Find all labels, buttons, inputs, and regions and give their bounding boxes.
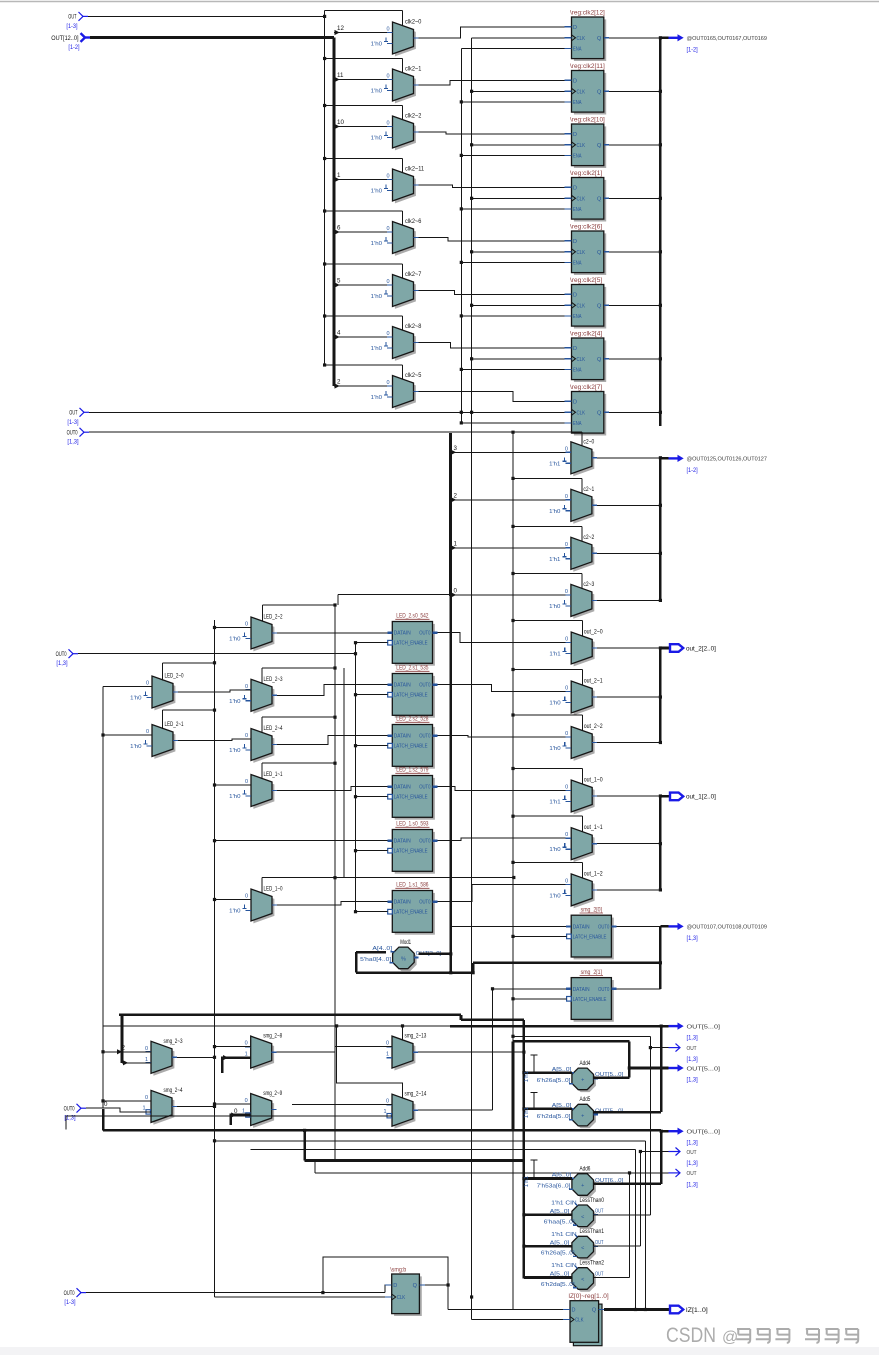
wire data into LED_2~0 <box>103 686 152 688</box>
svg-text:c2~3: c2~3 <box>583 581 594 588</box>
wire LessThan2 OUT riser x629.5 <box>594 1277 630 1279</box>
wire smg_2~9 select hook <box>231 1115 251 1125</box>
wire select tap for clk2~2 <box>325 105 403 107</box>
svg-text:A[4..0]: A[4..0] <box>372 946 392 952</box>
svg-text:OUT: OUT <box>68 14 76 21</box>
svg-text:ENA: ENA <box>573 207 582 213</box>
wire LessThan0 A from trunk <box>524 1214 572 1217</box>
wire select drop smg_2~14 <box>337 1026 403 1099</box>
latch LED_1.s0_593 <box>395 832 435 874</box>
svg-text:\reg:clk2[11]: \reg:clk2[11] <box>570 63 605 70</box>
svg-text:0: 0 <box>565 832 568 838</box>
wire out_2~1 output to bus <box>597 696 660 698</box>
wire select tap for LED_1~0 <box>262 877 335 879</box>
svg-text:OUT0: OUT0 <box>67 430 78 437</box>
mux smg_2~14 <box>394 1097 415 1129</box>
svg-text:Add5: Add5 <box>580 1096 591 1103</box>
svg-text:LED_2~4: LED_2~4 <box>264 725 283 732</box>
svg-text:1'h0: 1'h0 <box>549 847 560 853</box>
svg-text:1'h1: 1'h1 <box>524 1071 530 1082</box>
wire CLK trunk vertical x471.6 <box>471 38 473 1320</box>
bus smg select feed y1015 <box>119 1014 461 1017</box>
svg-text:1'h0: 1'h0 <box>229 699 240 705</box>
mux clk2~11 <box>395 171 416 203</box>
wire vertical trunk x214.5 <box>214 620 216 1297</box>
svg-text:Mod1: Mod1 <box>400 939 411 946</box>
flip-flop \reg:clk2[11] <box>574 73 606 115</box>
flip-flop \reg:clk2[10] <box>574 126 606 168</box>
wire CLK into \reg:clk2[1] <box>472 197 565 199</box>
bus @OUT0107 riser x660.4 <box>659 926 662 988</box>
svg-text:out_1[2..0]: out_1[2..0] <box>686 794 716 801</box>
operator Add5 (+) <box>574 1107 596 1129</box>
wire vertical x344 <box>343 668 345 878</box>
wire LessThan1 A from trunk <box>524 1245 572 1248</box>
flip-flop \reg:clk2[12] <box>574 19 606 61</box>
bus c2 data trunk vertical x450.5 <box>449 433 452 596</box>
svg-text:OUT0: OUT0 <box>419 683 430 689</box>
svg-text:lZ[0]~reg[1..0]: lZ[0]~reg[1..0] <box>569 1293 609 1300</box>
svg-text:1: 1 <box>386 1052 389 1058</box>
bus OUT[12..0] vertical trunk x334 <box>333 38 336 387</box>
svg-text:OUT0: OUT0 <box>64 1106 75 1113</box>
wire select tap for LED_1~1 <box>262 762 335 764</box>
svg-text:OUT0: OUT0 <box>56 651 67 658</box>
svg-text:smg_2[0]: smg_2[0] <box>581 906 603 913</box>
svg-text:2: 2 <box>337 379 341 386</box>
svg-text:<: < <box>581 1214 584 1220</box>
mux out_2~1 <box>574 683 595 715</box>
svg-text:out_2~1: out_2~1 <box>584 678 603 685</box>
wire Q of \reg:clk2[10] to output bus <box>609 144 660 146</box>
svg-text:\reg:clk2[4]: \reg:clk2[4] <box>570 331 602 338</box>
svg-text:1'h1: 1'h1 <box>549 557 560 563</box>
svg-text:clk2~5: clk2~5 <box>405 372 422 379</box>
svg-text:OUT0: OUT0 <box>419 785 430 791</box>
svg-text:LessThan1: LessThan1 <box>580 1228 605 1235</box>
svg-text:0: 0 <box>386 279 389 285</box>
svg-text:clk2~6: clk2~6 <box>405 218 422 225</box>
wire latch LED_1.s0_593 OUT0 to out_1~1 data input <box>438 838 572 841</box>
svg-text:LED_2~0: LED_2~0 <box>165 673 184 680</box>
svg-text:1'h1: 1'h1 <box>549 461 560 467</box>
wire CLK into \reg:clk2[6] <box>472 251 565 253</box>
svg-text:0: 0 <box>386 380 389 386</box>
wire y877.5 tap to x513.8 <box>335 877 514 879</box>
svg-text:OUT[12..0]: OUT[12..0] <box>51 35 78 42</box>
bus riser x304.6 <box>303 1130 306 1160</box>
svg-text:D: D <box>573 239 577 245</box>
bus smg to pin OUT[5..0] segment <box>450 1025 661 1028</box>
wire LessThan1 OUT riser x640.4 <box>594 1245 641 1247</box>
svg-text:out_2~2: out_2~2 <box>584 723 603 730</box>
svg-text:0: 0 <box>245 1098 248 1104</box>
svg-text:[1,3]: [1,3] <box>56 660 67 667</box>
svg-text:smg_2~4: smg_2~4 <box>164 1087 183 1094</box>
svg-text:D: D <box>572 1308 576 1314</box>
svg-text:0: 0 <box>245 622 248 628</box>
svg-text:CLK: CLK <box>577 357 586 363</box>
svg-text:Q: Q <box>597 303 602 309</box>
svg-text:OUT0: OUT0 <box>419 734 430 740</box>
svg-text:DATAIN: DATAIN <box>573 987 590 993</box>
svg-text:1'h1: 1'h1 <box>524 1176 530 1187</box>
svg-text:D: D <box>573 185 577 191</box>
wire smg_2~13 output to Add trunk <box>418 1051 524 1053</box>
input pin OUT0 (LED group) <box>69 649 74 658</box>
wire Mod1 output to feedback riser <box>419 953 451 956</box>
svg-text:0: 0 <box>386 1041 389 1047</box>
svg-text:CLK: CLK <box>577 89 586 95</box>
svg-text:ENA: ENA <box>573 100 582 106</box>
wire OUT0 into smg_2~4 select <box>86 1108 151 1112</box>
flip-flop \reg:clk2[6] <box>574 233 606 275</box>
wire LED_2~4 output to LED_2.s2_528 DATAIN <box>277 736 387 745</box>
svg-text:LATCH_ENABLE: LATCH_ENABLE <box>394 744 428 750</box>
svg-text:DATAIN: DATAIN <box>394 631 411 637</box>
svg-text:DATAIN: DATAIN <box>573 924 590 930</box>
svg-text:1'h1 CIN: 1'h1 CIN <box>551 1201 576 1207</box>
svg-text:OUT: OUT <box>687 1171 697 1177</box>
wire ENA into \reg:clk2[1] <box>461 208 564 210</box>
wire select tap for clk2~11 <box>325 158 403 160</box>
wire smg_2~14 output riser x492.5 <box>418 1109 493 1111</box>
wire select feed clk2~0 <box>325 10 403 12</box>
svg-text:OUT: OUT <box>595 1240 604 1246</box>
wire clk2~2 output to reg D <box>419 132 565 134</box>
wire LED_2~3 output to LED_2.s1_535 DATAIN <box>277 685 387 696</box>
svg-text:0: 0 <box>245 894 248 900</box>
svg-text:Q: Q <box>597 143 602 149</box>
wire pin stub @OUT0107 <box>660 925 668 928</box>
svg-text:1'h0: 1'h0 <box>130 696 141 702</box>
svg-text:D: D <box>573 399 577 405</box>
svg-text:CLK: CLK <box>577 196 586 202</box>
wire data into LED_2~2 from x214.5 <box>215 627 252 629</box>
svg-text:1: 1 <box>142 1105 145 1111</box>
bus Q outputs vertical x660.4 (top) <box>659 38 662 426</box>
operator LessThan2 (<) <box>574 1270 596 1292</box>
wire latch enable into LED_2.s2_528 <box>356 745 388 747</box>
wire OUT pin to select trunk <box>88 15 325 17</box>
wire y1149.4 <box>251 1148 636 1150</box>
wire select tap for out_2~2 <box>513 714 582 716</box>
svg-text:6: 6 <box>337 225 341 232</box>
wire ENA into \reg:clk2[6] <box>461 261 564 263</box>
svg-text:ENA: ENA <box>573 421 582 427</box>
wire latch LED_2.s2_528 OUT0 to out_2~2 data input <box>438 736 572 737</box>
wire smg_2~8 select hook <box>222 1058 250 1073</box>
wire OUT0 continues to c2~0 select <box>513 431 582 433</box>
wire clk2~0 output to reg D <box>419 27 565 38</box>
svg-text:c2~1: c2~1 <box>583 486 594 493</box>
wire LessThan2 A from trunk <box>524 1276 572 1279</box>
wire smg_2~13 data0 <box>335 1046 392 1048</box>
mux clk2~7 <box>395 277 416 309</box>
wire c2 select trunk x513 <box>512 432 514 1000</box>
svg-text:CLK: CLK <box>577 36 586 42</box>
wire latch enable into LED_1.s1_586 <box>356 911 388 913</box>
svg-text:\reg:clk2[7]: \reg:clk2[7] <box>570 384 602 391</box>
wire smg:b select loop <box>323 1257 448 1309</box>
bus vertical x122 into smg_2~3 <box>121 1015 124 1063</box>
wire smg select line y1025.9 <box>103 1025 450 1027</box>
svg-text:10: 10 <box>337 119 344 126</box>
operator Add6 (+) <box>574 1176 596 1198</box>
svg-text:<: < <box>581 1277 584 1283</box>
bus Add/LessThan A trunk x523.9 <box>523 1020 526 1279</box>
svg-text:\reg:clk2[6]: \reg:clk2[6] <box>570 224 602 231</box>
wire clk2~6 output to reg D <box>419 238 565 241</box>
svg-text:1: 1 <box>242 1109 245 1115</box>
output pin OUT #2 <box>650 1047 668 1049</box>
svg-text:[1,3]: [1,3] <box>687 1077 698 1084</box>
svg-text:1'h1 CIN: 1'h1 CIN <box>551 1232 576 1238</box>
svg-text:D: D <box>393 1283 397 1289</box>
svg-text:1: 1 <box>145 1057 148 1063</box>
svg-text:Q: Q <box>597 89 602 95</box>
svg-text:smg_2~13: smg_2~13 <box>405 1033 427 1040</box>
wire select tap for clk2~0 <box>401 11 403 27</box>
output pin @OUT0125,OUT0126,OUT0127 <box>660 457 668 460</box>
wire CLK into \reg:clk2[12] <box>472 37 565 39</box>
mux clk2~8 <box>395 329 416 361</box>
svg-text:0: 0 <box>234 1108 238 1115</box>
svg-text:LED_1.s2_579: LED_1.s2_579 <box>396 767 429 774</box>
svg-text:2: 2 <box>122 1045 126 1052</box>
wire smg_2[0] latch enable from x513 <box>513 935 567 937</box>
svg-text:0: 0 <box>386 74 389 80</box>
svg-text:1'h0: 1'h0 <box>549 893 560 899</box>
svg-text:CSDN: CSDN <box>666 1323 716 1347</box>
wire select tap for c2~2 <box>513 525 582 527</box>
wire Q of \reg:clk2[5] to output bus <box>609 304 660 306</box>
svg-text:LED_2.s0_542: LED_2.s0_542 <box>396 613 429 620</box>
svg-text:1'h0: 1'h0 <box>371 294 382 300</box>
svg-text:\reg:clk2[1]: \reg:clk2[1] <box>570 170 602 177</box>
svg-text:6'h26a[5..0]: 6'h26a[5..0] <box>537 1078 571 1084</box>
svg-text:ENA: ENA <box>573 260 582 266</box>
wire data bit 11 into clk2~1 <box>334 79 393 81</box>
wire Q of \reg:clk2[4] to output bus <box>609 358 660 360</box>
svg-text:clk2~0: clk2~0 <box>405 19 422 26</box>
wire x513 trunk continue <box>512 999 514 1042</box>
svg-text:0: 0 <box>565 494 568 500</box>
wire data bit 1 into c2~2 <box>451 547 571 549</box>
latch smg_2[1] <box>574 980 614 1022</box>
wire smg_2~14 select hook <box>66 1116 392 1129</box>
wire Q of \reg:clk2[12] to output bus <box>609 37 660 39</box>
svg-text:LATCH_ENABLE: LATCH_ENABLE <box>394 641 428 647</box>
wire data into LED_1~0 from x214.5 <box>215 899 252 901</box>
latch LED_1.s1_586 <box>395 893 435 935</box>
wire data into LED_1~1 from x214.5 <box>215 784 252 786</box>
latch smg_2[0] <box>574 918 614 960</box>
svg-text:OUT[5...0]: OUT[5...0] <box>687 1024 721 1030</box>
svg-text:[1-2]: [1-2] <box>687 467 698 474</box>
wire LED_2~0 select tap from x214.5 <box>163 662 215 664</box>
wire latch LED_1.s2_579 OUT0 to out_1~0 data input <box>438 787 572 791</box>
wire data bit 12 into clk2~0 <box>334 32 393 34</box>
wire horizontal y594.5 select feed <box>338 594 451 596</box>
wire data into LED_2~1 <box>103 734 152 736</box>
wire LED_1~0 output to LED_1.s1_586 DATAIN <box>277 902 387 905</box>
wire lZ reg CLK from clock trunk <box>472 1319 566 1321</box>
input pin OUT (top) <box>79 12 84 21</box>
svg-text:0: 0 <box>565 731 568 737</box>
svg-text:1'h0: 1'h0 <box>371 136 382 142</box>
svg-text:out_1~2: out_1~2 <box>584 870 603 877</box>
svg-text:+: + <box>581 1114 584 1120</box>
wire OUT0 to c2 select trunk <box>89 431 513 433</box>
svg-text:D: D <box>573 78 577 84</box>
wire smg_2[0] DATAIN <box>451 925 566 927</box>
svg-text:6'h2da[5..0]: 6'h2da[5..0] <box>537 1114 571 1120</box>
wire select tap for c2~3 <box>513 573 582 575</box>
flip-flop \reg:clk2[5] <box>574 287 606 329</box>
bus c2 outputs vertical x660.4 <box>659 458 662 601</box>
svg-text:OUT0: OUT0 <box>419 839 430 845</box>
wire Add5 OUT to riser x661.2 <box>594 1111 662 1114</box>
wire clk2~7 output to reg D <box>419 291 565 295</box>
bus vertical trunk x450.8 (Mod1 feedback riser) <box>449 595 452 927</box>
bus riser x450.8 to smg_2[0] DATAIN <box>449 926 452 972</box>
wire trunk x103 vertical <box>102 687 104 1109</box>
svg-text:0: 0 <box>245 779 248 785</box>
wire select tap for clk2~6 <box>325 210 403 212</box>
svg-text:LATCH_ENABLE: LATCH_ENABLE <box>394 849 428 855</box>
wire select drop smg_2~13 <box>402 1026 404 1041</box>
svg-text:OUT0: OUT0 <box>598 987 609 993</box>
svg-text:1'h0: 1'h0 <box>371 89 382 95</box>
input pin OUT (middle) <box>80 408 85 417</box>
svg-text:OUT[5...0]: OUT[5...0] <box>687 1066 721 1072</box>
svg-text:LessThan0: LessThan0 <box>580 1197 605 1204</box>
svg-text:OUT0: OUT0 <box>598 924 609 930</box>
wire data bit 5 into clk2~7 <box>334 284 393 286</box>
latch LED_2.s2_528 <box>395 727 435 769</box>
svg-text:[1-3]: [1-3] <box>66 23 77 30</box>
svg-text:Q: Q <box>597 250 602 256</box>
svg-text:+: + <box>581 1078 584 1084</box>
wire data bit 2 into c2~1 <box>451 499 571 501</box>
wire ENA into \reg:clk2[10] <box>461 154 564 156</box>
svg-text:1'h0: 1'h0 <box>549 604 560 610</box>
mux LED_2~0 <box>154 678 175 710</box>
wire ENA into \reg:clk2[11] <box>461 101 564 103</box>
svg-text:CLK: CLK <box>577 303 586 309</box>
wire smg:b CLK from left <box>215 1296 385 1298</box>
svg-text:1'h0: 1'h0 <box>549 746 560 752</box>
wire smg_2~3 data0 from x103 <box>103 1051 151 1053</box>
svg-text:Q: Q <box>597 357 602 363</box>
svg-text:@OUT0125,OUT0126,OUT0127: @OUT0125,OUT0126,OUT0127 <box>687 457 767 463</box>
mux smg_2~3 <box>153 1044 174 1076</box>
wire Q of \reg:clk2[7] to output bus <box>609 411 660 413</box>
svg-text:CLK: CLK <box>577 410 586 416</box>
constant tick Add6 <box>533 1160 535 1179</box>
wire Q of \reg:clk2[6] to output bus <box>609 251 660 253</box>
svg-text:OUT: OUT <box>687 1150 697 1156</box>
svg-text:1'h1 CIN: 1'h1 CIN <box>551 1263 576 1269</box>
svg-text:[1,3]: [1,3] <box>687 935 698 942</box>
svg-text:[1,3]: [1,3] <box>687 1181 698 1188</box>
svg-text:Q: Q <box>413 1283 418 1289</box>
mux out_1~1 <box>574 830 595 862</box>
wire data bit 4 into clk2~8 <box>334 336 393 338</box>
svg-text:0: 0 <box>146 729 149 735</box>
wire latch enable into LED_2.s0_542 <box>356 642 388 644</box>
wire clk2~5 output to reg D <box>419 392 565 402</box>
operator LessThan1 (<) <box>574 1239 596 1261</box>
svg-text:clk2~8: clk2~8 <box>405 323 422 330</box>
operator Add4 (+) <box>574 1071 596 1093</box>
mux clk2~6 <box>395 224 416 256</box>
wire select trunk vertical x324.6 <box>324 11 326 366</box>
svg-text:ENA: ENA <box>573 367 582 373</box>
svg-text:@OUT0107,OUT0108,OUT0109: @OUT0107,OUT0108,OUT0109 <box>687 925 767 931</box>
wire select tap for out_1~1 <box>513 815 582 817</box>
wire data bit 1 into clk2~11 <box>334 179 393 181</box>
svg-text:[1,3]: [1,3] <box>687 1140 698 1147</box>
output pin @OUT0165,OUT0167,OUT0169 <box>660 36 668 39</box>
wire select tap for clk2~8 <box>325 315 403 317</box>
wire OUT mid pin to ENA trunk <box>89 411 472 413</box>
output pin out_1[2..0] <box>660 795 670 798</box>
svg-text:OUT: OUT <box>69 410 77 417</box>
wire smg_2~4 output <box>177 1105 215 1107</box>
svg-text:<: < <box>581 1246 584 1252</box>
svg-text:out_1~0: out_1~0 <box>584 777 603 784</box>
svg-text:Q: Q <box>597 410 602 416</box>
wire smg_2~8 output <box>277 1051 335 1053</box>
wire riser x635.5 (lZ Q feedback) <box>635 1149 637 1309</box>
svg-text:7'h53a[6..0]: 7'h53a[6..0] <box>537 1183 571 1189</box>
svg-text:0: 0 <box>245 684 248 690</box>
wire data bit 3 into c2~0 <box>451 451 571 453</box>
svg-text:[1-3]: [1-3] <box>64 1299 75 1306</box>
svg-text:1: 1 <box>383 1109 386 1115</box>
bus Mod1 feedback loop bottom <box>356 971 473 974</box>
svg-text:Q: Q <box>592 1308 597 1314</box>
wire c2~0 output to bus <box>597 457 661 459</box>
svg-text:CLK: CLK <box>577 250 586 256</box>
mux c2~3 <box>573 587 594 619</box>
svg-text:LED_1~0: LED_1~0 <box>264 886 283 893</box>
svg-text:clk2~1: clk2~1 <box>405 66 422 73</box>
svg-text:out_1~1: out_1~1 <box>584 824 603 831</box>
svg-text:LATCH_ENABLE: LATCH_ENABLE <box>394 693 428 699</box>
wire data bit 6 into clk2~6 <box>334 231 393 233</box>
output pin out_2[2..0] <box>660 647 670 650</box>
mux clk2~5 <box>395 378 416 410</box>
wire clk2~1 output to reg D <box>419 80 565 85</box>
svg-text:@OUT0165,OUT0167,OUT0169: @OUT0165,OUT0167,OUT0169 <box>687 36 767 42</box>
wire ENA into \reg:clk2[5] <box>461 315 564 317</box>
wire Q of \reg:clk2[1] to output bus <box>609 197 660 199</box>
svg-text:0: 0 <box>386 121 389 127</box>
svg-text:1'h0: 1'h0 <box>229 637 240 643</box>
svg-text:0: 0 <box>146 681 149 687</box>
input pin OUT0 (bottom) <box>77 1104 82 1113</box>
svg-text:0: 0 <box>245 1041 248 1047</box>
svg-text:ENA: ENA <box>573 46 582 52</box>
svg-text:DATAIN: DATAIN <box>394 900 411 906</box>
svg-text:[1-3]: [1-3] <box>67 419 78 426</box>
wire CLK into \reg:clk2[10] <box>472 144 565 146</box>
wire select tap for clk2~7 <box>325 263 403 265</box>
svg-text:1: 1 <box>337 172 341 179</box>
